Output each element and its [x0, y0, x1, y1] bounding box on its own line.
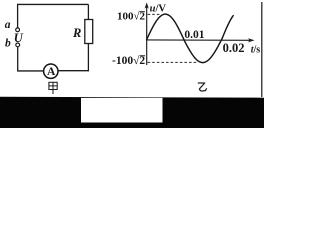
wire bottom left (to ammeter) — [17, 70, 43, 72]
right page border line — [261, 2, 262, 97]
label -100root2 — [112, 54, 145, 67]
label jia (circuit 甲) — [49, 82, 57, 94]
label 100root2 — [117, 11, 146, 23]
ammeter A — [44, 64, 58, 78]
graph x-axis with arrow — [147, 38, 255, 42]
wire left side lower (terminal b down to bottom) — [17, 47, 19, 71]
terminal b — [16, 43, 20, 47]
terminal a — [16, 28, 20, 32]
svg-text:b: b — [5, 37, 11, 49]
svg-text:a: a — [5, 19, 11, 31]
svg-text:R: R — [72, 26, 81, 40]
svg-text:A: A — [47, 66, 56, 78]
wire top side of loop — [17, 3, 88, 5]
svg-text:0.02: 0.02 — [223, 41, 245, 55]
svg-text:t/s: t/s — [251, 44, 261, 55]
svg-text:u/V: u/V — [150, 4, 167, 15]
bottom black scan bar — [0, 97, 264, 128]
white answer box in bar — [81, 98, 163, 123]
sine curve u(t) — [147, 14, 234, 63]
wire right side lower (resistor to bottom corner) — [87, 43, 89, 71]
wire left side upper (down to terminal a) — [17, 4, 19, 27]
wire bottom right (ammeter to right corner) — [58, 70, 89, 72]
svg-text:100√2: 100√2 — [117, 11, 146, 23]
resistor R — [85, 20, 93, 44]
dashed peak level line — [148, 13, 161, 15]
wire right side upper (top corner to resistor) — [87, 4, 89, 19]
svg-text:0.01: 0.01 — [184, 29, 204, 41]
graph y-axis with arrow — [145, 2, 149, 65]
label yi (graph 乙) — [198, 83, 207, 91]
dashed trough level line — [148, 61, 198, 63]
